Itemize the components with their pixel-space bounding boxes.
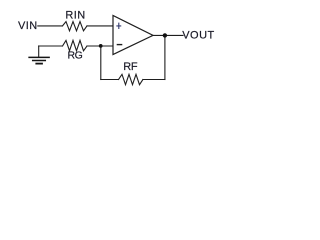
svg-text:RG: RG [68, 50, 83, 62]
svg-text:RIN: RIN [65, 10, 85, 22]
svg-text:VOUT: VOUT [182, 30, 215, 42]
svg-text:RF: RF [123, 61, 138, 73]
svg-text:VIN: VIN [18, 20, 38, 32]
